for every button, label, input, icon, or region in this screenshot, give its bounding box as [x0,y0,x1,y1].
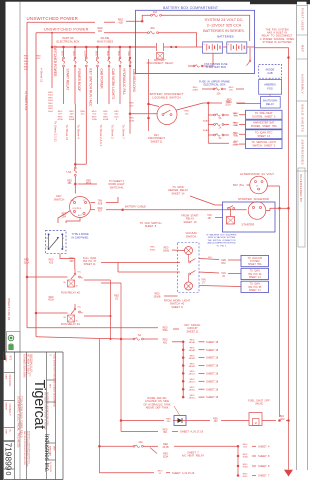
svg-text:DATE: DATE [53,446,56,451]
svg-text:352B: 352B [129,120,135,122]
svg-text:2A: 2A [219,127,222,130]
svg-text:T2: T2 [46,238,48,240]
svg-text:ACC: ACC [78,214,83,217]
svg-text:4B1C2: 4B1C2 [189,382,196,384]
svg-text:RED: RED [24,260,29,262]
svg-text:SUPERSEDES: SUPERSEDES [300,140,304,166]
svg-text:DATE: DATE [5,375,8,381]
svg-text:353C: 353C [242,476,248,478]
svg-text:BATTERIES: BATTERIES [217,35,233,39]
svg-text:BUILD SHEETS: BUILD SHEETS [300,105,304,133]
svg-text:ABOVE DEF TANK: ABOVE DEF TANK [146,407,169,410]
svg-text:TAN: TAN [207,214,212,217]
svg-text:ELECTRICAL BOX: ELECTRICAL BOX [57,40,80,44]
svg-text:RED: RED [48,97,53,99]
svg-text:4B1D2: 4B1D2 [189,397,196,399]
svg-text:SHEET 11: SHEET 11 [186,329,199,333]
svg-text:5A: 5A [138,334,141,337]
svg-text:APPROVED: APPROVED [49,446,52,457]
svg-text:CODBACH: CODBACH [8,404,11,416]
svg-text:SHEET 8: SHEET 8 [145,224,157,228]
svg-text:RED: RED [69,116,74,118]
svg-text:353A: 353A [242,455,248,458]
svg-text:BATTERIES IN SERIES.: BATTERIES IN SERIES. [203,29,245,33]
svg-text:SHEET 13: SHEET 13 [257,135,270,138]
svg-text:PART: PART [5,430,8,436]
svg-text:RED: RED [226,102,231,104]
svg-text:SHEET 18: SHEET 18 [206,340,219,344]
svg-text:R2B: R2B [98,203,103,205]
svg-text:KEY SWITCH RUN / ACC: KEY SWITCH RUN / ACC [88,69,92,108]
svg-text:RED: RED [103,111,108,113]
svg-text:To Sheet 11: To Sheet 11 [65,125,69,141]
svg-text:353AB: 353AB [154,295,161,298]
svg-text:RED: RED [69,111,74,113]
svg-text:STARTER SOLENOID: STARTER SOLENOID [238,197,270,201]
svg-text:TAN: TAN [98,200,103,203]
svg-text:4B1A: 4B1A [86,182,92,185]
svg-text:RED: RED [58,111,63,113]
svg-text:SWITCH: SWITCH [54,197,65,201]
svg-text:4B1C1: 4B1C1 [189,374,196,376]
svg-text:RED: RED [67,180,72,182]
svg-text:No.: No. [9,430,11,434]
svg-text:4B1A2: 4B1A2 [189,349,196,352]
svg-text:RED: RED [114,111,119,113]
svg-text:T4: T4 [62,238,64,240]
svg-text:LOCKABLE SWITCH: LOCKABLE SWITCH [152,96,180,100]
svg-text:125A: 125A [83,51,87,57]
svg-text:SHEET 11: SHEET 11 [150,139,163,143]
svg-text:60A: 60A [61,51,65,56]
svg-text:SYSTEM, SHEET 5: SYSTEM, SHEET 5 [252,115,276,118]
svg-text:To Sheet 2,3,11: To Sheet 2,3,11 [54,121,58,142]
svg-text:SWITCH, SHEET 3: SWITCH, SHEET 3 [252,145,276,148]
svg-text:SHEET 18: SHEET 18 [206,348,219,352]
svg-text:SHEET 4: SHEET 4 [258,444,270,448]
svg-text:X52 PIN 55: X52 PIN 55 [248,287,262,289]
svg-text:SHEET 18: SHEET 18 [206,395,219,399]
svg-text:60A: 60A [117,51,121,56]
svg-text:BATTERY CABLE: BATTERY CABLE [125,205,146,209]
svg-text:SHEET 4,13,15,16: SHEET 4,13,15,16 [172,471,195,475]
svg-text:M: M [255,422,257,425]
svg-text:SCALE: SCALE [5,356,8,363]
svg-text:UNSWITCHED POWER: UNSWITCHED POWER [44,27,89,31]
svg-text:4B1B2: 4B1B2 [189,366,196,368]
svg-text:35(F): 35(F) [150,249,155,251]
svg-text:SHEET 19: SHEET 19 [184,220,197,224]
svg-text:RED: RED [184,111,189,113]
svg-text:SHEET 18: SHEET 18 [206,372,219,376]
svg-text:35(A)2: 35(A)2 [203,119,210,122]
svg-text:RED: RED [49,297,54,299]
svg-text:HYDRAULIC FILL: HYDRAULIC FILL [122,69,126,96]
svg-text:TYPE 2 DIODE: TYPE 2 DIODE [72,233,90,236]
svg-text:40A: 40A [150,27,155,30]
svg-text:RED: RED [129,118,134,120]
svg-text:IN CAB PANEL: IN CAB PANEL [72,237,90,240]
svg-text:624A: 624A [103,118,109,121]
svg-text:SYSTEM 24 VOLT DC,: SYSTEM 24 VOLT DC, [204,18,243,22]
svg-text:60A: 60A [106,51,110,56]
svg-text:704A: 704A [91,118,97,121]
svg-text:RUN RELAY #2: RUN RELAY #2 [61,290,80,294]
svg-text:IF MACHINE NOT EQUIPPED: IF MACHINE NOT EQUIPPED [207,234,237,237]
svg-text:RED: RED [24,61,29,63]
svg-text:4600: 4600 [48,111,54,113]
svg-text:41C: 41C [81,114,85,116]
svg-text:01/14/2004: 01/14/2004 [8,375,11,388]
svg-text:4600: 4600 [48,100,54,102]
svg-text:468A: 468A [69,118,75,121]
svg-text:35(M): 35(M) [163,250,169,252]
svg-text:41B: 41B [233,135,237,137]
svg-text:RED: RED [213,418,218,420]
svg-text:2–12VOLT 925 CCA: 2–12VOLT 925 CCA [207,23,242,27]
svg-text:RED: RED [129,103,134,105]
svg-text:To Sheet 2: To Sheet 2 [111,125,115,140]
svg-text:FSS: FSS [267,86,273,90]
svg-text:RED: RED [163,444,168,446]
svg-text:SHEET 8: SHEET 8 [171,305,183,309]
svg-text:To Sheet 2,4,6: To Sheet 2,4,6 [24,91,28,111]
svg-text:SYSTEM IS ACTIVATED: SYSTEM IS ACTIVATED [263,41,292,44]
svg-text:DISCONNECT RELAY: DISCONNECT RELAY [147,61,174,65]
svg-text:STARTER: STARTER [242,223,255,227]
svg-text:SHEET 7BA: SHEET 7BA [248,263,262,266]
svg-text:RED: RED [48,92,53,94]
svg-text:RED: RED [150,247,155,249]
svg-text:SHEET 1 OF 22: SHEET 1 OF 22 [7,298,11,321]
svg-text:R27: R27 [98,211,103,213]
svg-text:RED: RED [166,418,171,420]
svg-text:RED: RED [24,66,29,68]
svg-text:REF: REF [300,45,304,53]
svg-text:To Sheet 4: To Sheet 4 [77,125,81,140]
svg-text:SHEET 18: SHEET 18 [206,356,219,360]
svg-text:WITH A VACUUM SYSTEM: WITH A VACUUM SYSTEM [208,236,236,239]
svg-text:60A: 60A [95,51,99,56]
svg-text:TO VACUUM: TO VACUUM [247,257,261,260]
svg-text:TAN: TAN [221,272,226,275]
svg-text:SWITCH: SWITCH [186,234,196,238]
svg-text:46A: 46A [24,57,28,60]
svg-text:RED: RED [92,111,97,113]
svg-text:01/14/2004: 01/14/2004 [49,462,51,473]
svg-text:NTS: NTS [9,356,11,361]
svg-text:RED: RED [163,454,168,456]
svg-text:RED: RED [58,116,63,118]
svg-text:35(A)1: 35(A)1 [203,129,210,132]
svg-text:RED: RED [164,248,169,250]
svg-text:THE SWITCH CONNECTOR: THE SWITCH CONNECTOR [207,240,236,242]
svg-text:RED: RED [163,340,168,342]
svg-text:To Sheet 7: To Sheet 7 [122,125,126,140]
svg-text:TO PIN 5.: TO PIN 5. [216,245,227,247]
svg-text:R32: R32 [221,263,226,265]
svg-text:353B: 353B [242,466,248,468]
svg-text:354A: 354A [162,329,168,332]
svg-text:CHANGE DESCRIPTION: CHANGE DESCRIPTION [53,384,56,407]
svg-text:FUNCTIONAL 0.5 0.25: FUNCTIONAL 0.5 0.25 [30,354,33,372]
svg-text:SUPERSEDED BY: SUPERSEDED BY [299,174,303,202]
svg-text:4G3: 4G3 [49,262,54,264]
svg-text:TO IQAN: TO IQAN [250,283,260,286]
svg-text:201A: 201A [225,103,231,106]
svg-text:SHEET 7: SHEET 7 [258,474,270,478]
svg-text:SHEET 14: SHEET 14 [249,277,261,279]
svg-text:RED: RED [103,116,108,118]
svg-text:START RELAY: START RELAY [66,69,70,92]
svg-text:RED: RED [36,56,41,58]
svg-text:26,3B: 26,3B [162,447,168,449]
svg-text:CAB: CAB [267,71,273,75]
svg-text:RED: RED [163,429,168,431]
svg-text:TO IQAN: TO IQAN [250,270,260,273]
svg-text:ALTERNATOR 24 VOLT: ALTERNATOR 24 VOLT [240,172,274,176]
svg-text:RED: RED [86,180,91,182]
svg-text:MAXI FUSES: MAXI FUSES [97,40,113,44]
svg-text:RED: RED [229,87,234,89]
svg-text:10A: 10A [138,441,143,444]
svg-text:46C: 46C [24,69,28,71]
svg-text:SWITCH #1: SWITCH #1 [110,185,124,189]
svg-text:RED: RED [98,208,103,210]
svg-text:Tigercat: Tigercat [31,380,47,430]
svg-text:# Sheet 11: # Sheet 11 [39,68,43,83]
svg-text:TAN: TAN [201,279,206,282]
svg-text:353A: 353A [163,455,169,458]
svg-text:SHEET 18: SHEET 18 [206,379,219,383]
svg-text:SHEET 4,14,17,19: SHEET 4,14,17,19 [180,430,204,434]
svg-text:RUN RELAY #1: RUN RELAY #1 [61,322,80,326]
svg-text:SYSTEM: SYSTEM [250,261,260,263]
svg-text:DRAWN: DRAWN [5,403,8,411]
svg-text:CAB WORK LIGHTS: CAB WORK LIGHTS [111,69,115,101]
svg-text:RED: RED [49,260,54,262]
svg-text:ASSEMBLY: ASSEMBLY [300,74,304,94]
svg-text:BLK: BLK [114,116,119,118]
svg-text:41BB: 41BB [192,90,198,92]
svg-text:418A: 418A [233,124,238,127]
svg-text:60A: 60A [127,52,130,57]
svg-text:4600: 4600 [48,106,54,108]
svg-text:FIRST USED: FIRST USED [300,8,304,31]
svg-text:4B1B1: 4B1B1 [189,358,196,360]
svg-text:T1: T1 [46,247,48,249]
svg-text:To Sheet 2,4,6,7: To Sheet 2,4,6,7 [99,125,103,147]
svg-text:RED: RED [48,103,53,105]
svg-text:46B: 46B [24,64,28,66]
svg-text:RED: RED [193,87,198,89]
svg-text:ELECTRICAL BOX: ELECTRICAL BOX [204,84,226,87]
svg-text:5A: 5A [219,117,222,120]
svg-text:T3: T3 [62,247,64,249]
svg-text:0: 0 [4,472,11,476]
svg-text:ECN-E0958 FIRST RELEASE: ECN-E0958 FIRST RELEASE [53,355,56,385]
svg-text:IN BATTERY BOX: IN BATTERY BOX [206,66,227,69]
svg-text:4G3A: 4G3A [48,299,54,302]
svg-text:POWER ROOF: POWER ROOF [77,69,81,92]
svg-text:SHEET 14: SHEET 14 [172,191,185,195]
svg-text:CAB POWER: CAB POWER [100,69,104,90]
svg-text:RED: RED [163,327,168,329]
svg-text:UNSWITCHED POWER: UNSWITCHED POWER [27,16,79,21]
svg-text:CONTROL: CONTROL [72,208,83,210]
svg-text:RED: RED [24,56,29,58]
svg-text:T729 (A7309,7910) 719899 REV: T729 (A7309,7910) 719899 REV 0 [20,396,24,438]
svg-text:BATTERY BOX COMPARTMENT: BATTERY BOX COMPARTMENT [163,6,218,10]
svg-text:SWITCHED POWER: SWITCHED POWER [53,46,57,78]
svg-text:624A: 624A [233,143,238,146]
svg-text:4B1: 4B1 [163,343,168,345]
svg-text:SHEET 14: SHEET 14 [84,263,96,266]
svg-text:10A: 10A [216,93,221,96]
svg-text:RELAY: RELAY [266,103,274,106]
svg-text:40A: 40A [153,11,158,14]
svg-text:RED: RED [80,111,85,113]
svg-text:INSIDE: INSIDE [266,68,275,72]
svg-text:602: 602 [98,30,103,33]
svg-text:BAT (B+): BAT (B+) [233,183,244,187]
svg-text:SHEET 18: SHEET 18 [206,387,219,391]
svg-text:25AA: 25AA [24,261,30,264]
svg-text:4B1A1: 4B1A1 [189,341,196,344]
svg-text:A/C HEAT RELAY: A/C HEAT RELAY [182,454,204,458]
svg-text:VALVE: VALVE [255,402,263,406]
svg-text:4B1D1: 4B1D1 [189,390,196,392]
svg-text:40A: 40A [72,51,76,56]
svg-text:4600: 4600 [48,95,54,97]
svg-text:RED: RED [48,108,53,110]
svg-text:X52 PIN 30: X52 PIN 30 [248,274,262,276]
svg-text:RED: RED [92,116,97,118]
svg-text:RED: RED [114,296,119,298]
svg-text:SHEET 8: SHEET 8 [258,454,270,458]
svg-text:AND A JUMPER FROM PIN B: AND A JUMPER FROM PIN B [208,242,237,245]
svg-text:RED: RED [155,294,160,296]
svg-text:4B1: 4B1 [67,183,72,185]
svg-text:SHEET 8: SHEET 8 [258,464,270,468]
svg-text:2A: 2A [219,137,222,140]
svg-text:7.5A: 7.5A [66,171,71,174]
svg-text:BLK: BLK [280,416,285,418]
svg-text:SHEET 14: SHEET 14 [249,290,261,292]
svg-text:41B: 41B [118,22,123,25]
svg-text:SHEET 18: SHEET 18 [206,364,219,368]
svg-text:POWER, SHEET 7BA: POWER, SHEET 7BA [251,125,277,128]
svg-text:GRN: GRN [221,260,226,262]
svg-text:719899: 719899 [4,443,14,471]
